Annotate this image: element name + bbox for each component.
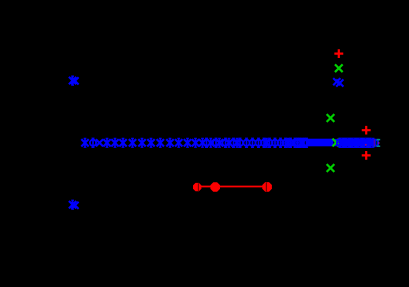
blue cluster bottom-left	[69, 200, 79, 209]
blue circle row middle part	[203, 138, 298, 147]
blue dense segment overlays	[337, 138, 377, 147]
blue cluster top-left	[69, 76, 79, 85]
red line series	[197, 186, 267, 188]
red plus mid right lower	[362, 151, 371, 160]
red dot pair left	[193, 183, 201, 191]
red plus mid right upper	[362, 126, 371, 135]
blue solid bar	[294, 138, 333, 147]
red plus top right	[334, 49, 343, 58]
green hidden row under dense bar	[337, 139, 375, 147]
blue double X top right	[333, 78, 343, 87]
green X mid right	[327, 114, 335, 122]
blue final cluster at row end	[377, 139, 380, 147]
blue asterisk row left part	[81, 138, 206, 147]
red dot middle	[210, 182, 220, 192]
green X top right	[335, 64, 343, 72]
blue dense bar right	[334, 139, 376, 146]
red dot pair right	[262, 182, 272, 192]
green X in row	[332, 139, 340, 147]
green X lower right	[327, 164, 335, 172]
